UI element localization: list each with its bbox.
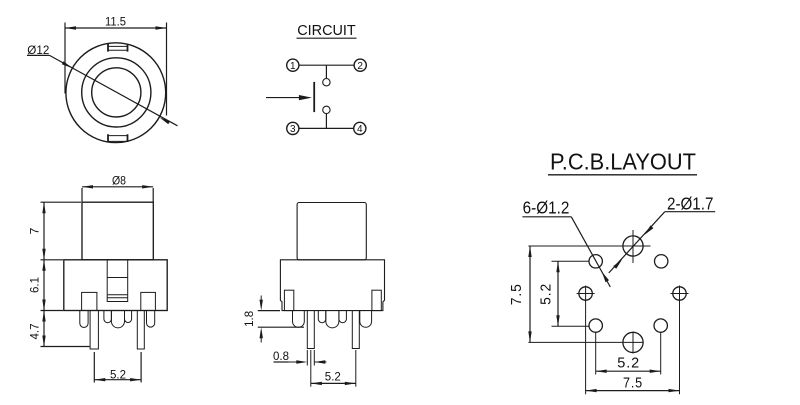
front view: center plunger shaft [107, 260, 128, 302]
label 2-Ø1.7: arrowhead upper right [645, 225, 654, 235]
dimension Ø12: leader line through circle [50, 55, 178, 125]
dimension 11.5: extension lines [64, 23, 66, 94]
front view dimension 5.2: dimension line with arrows [94, 379, 141, 381]
svg-text:5.2: 5.2 [538, 283, 555, 305]
pcb dimension 7.5 left: extension lines through holes [528, 245, 650, 247]
svg-text:7.5: 7.5 [623, 374, 643, 391]
pcb hole: lower-right small hole [654, 319, 667, 332]
front view: mid-left boss [104, 311, 112, 323]
svg-text:3: 3 [290, 124, 296, 135]
front view: mid-right boss [125, 311, 132, 323]
pcb hole: mid-right crosshair horizontal [671, 293, 689, 295]
svg-text:6.1: 6.1 [28, 277, 42, 293]
label 6-Ø1.2: leader line through small hole [571, 217, 610, 287]
dimension 6.1: dimension line segment [43, 260, 45, 311]
svg-text:6-Ø1.2: 6-Ø1.2 [523, 198, 570, 218]
front view: Ø8 extension lines [81, 188, 83, 202]
circuit: terminal 3 circle [287, 122, 299, 134]
dimension 0.8: right arrow [314, 361, 326, 363]
pcb dimension 7.5 left: dimension line with arrows [529, 246, 531, 342]
side view: mid-left boss [318, 311, 326, 323]
circuit: lower contact stub wire [325, 114, 327, 129]
circuit: upper contact circle [323, 79, 330, 86]
circuit: terminal 4 circle [354, 122, 366, 134]
pcb hole: top-left small hole 6-Ø1.2 [589, 255, 602, 268]
svg-text:2-Ø1.7: 2-Ø1.7 [667, 193, 713, 213]
pcb dimension 5.2 bottom: extension lines from lower holes [595, 333, 597, 375]
front view: dimension Ø8 line with arrows [82, 186, 153, 188]
circuit: terminal 1 circle [287, 59, 299, 71]
circuit: title underline [297, 37, 357, 39]
svg-text:4.7: 4.7 [28, 323, 42, 339]
side view: left inner post [284, 290, 293, 310]
pcb dimension 7.5 bottom: extension lines from mid holes [585, 286, 587, 395]
side view: switch body outline [280, 260, 384, 311]
circuit: lower contact circle [323, 106, 330, 113]
svg-text:5.2: 5.2 [617, 354, 640, 371]
pcb dimension 7.5 bottom: dimension line with arrows [586, 390, 680, 392]
front view: center boss [111, 311, 124, 328]
svg-text:P.C.B.LAYOUT: P.C.B.LAYOUT [550, 149, 696, 175]
pcb dimension 5.2 left: dimension line with arrows [557, 261, 559, 326]
front view dimension 5.2: extension lines [93, 352, 95, 383]
dimension Ø12: arrowhead at upper-left circle edge [62, 61, 73, 68]
svg-text:1.8: 1.8 [242, 311, 256, 327]
svg-text:4: 4 [357, 124, 363, 135]
dimension 0.8: left arrow [289, 361, 299, 363]
front view: right terminal pin [137, 311, 144, 350]
svg-text:Ø8: Ø8 [112, 174, 126, 188]
dimension Ø12: arrowhead at lower-right circle edge [160, 117, 171, 124]
top view: top key notch [108, 44, 128, 52]
side view dimension 5.2: extension lines at pin centers [310, 350, 312, 387]
pcb hole: top large hole crosshair vertical [632, 230, 634, 263]
front view: left body slot [82, 292, 97, 310]
pcb hole: top-right small hole [655, 255, 668, 268]
svg-text:2: 2 [357, 61, 363, 72]
svg-text:5.2: 5.2 [325, 369, 341, 383]
pcb hole: mid-left crosshair horizontal [577, 293, 595, 295]
circuit: wire terminal3 to terminal4 [299, 127, 354, 129]
front view: left dimension extension lines [41, 201, 82, 203]
dimension 1.8: extension lines [258, 310, 280, 312]
front view: button cap outline [82, 202, 153, 260]
side view: left terminal pin [307, 311, 314, 349]
circuit: switch actuator bar [313, 82, 315, 112]
pcb hole: lower-left small hole [589, 319, 602, 332]
label 2-Ø1.7: arrowhead lower left [613, 259, 622, 269]
svg-text:7.5: 7.5 [508, 283, 525, 305]
front view: right mounting tab (U shape) [147, 311, 155, 328]
circuit: terminal 2 circle [354, 59, 366, 71]
label 2-Ø1.7: leader line through top hole [609, 212, 665, 273]
dimension 7: dimension line segment [43, 202, 45, 260]
pcb dimension 5.2 bottom: dimension line with arrows [596, 370, 661, 372]
svg-text:CIRCUIT: CIRCUIT [297, 23, 356, 39]
circuit: push direction arrow [266, 97, 301, 99]
front view: left terminal pin [90, 311, 98, 350]
svg-text:1: 1 [290, 61, 296, 72]
pcb hole: bottom large hole crosshair vertical [632, 332, 634, 354]
dimension 11.5: dimension line with arrows [65, 27, 167, 29]
side view dimension 5.2: dimension line with arrows [311, 382, 356, 384]
dimension 1.8: arrows outside [260, 296, 262, 300]
pcb hole: mid-left small hole [579, 287, 592, 300]
pcb hole: bottom large hole 2-Ø1.7 [623, 332, 643, 352]
side view: right mounting tab (U shape) [360, 311, 372, 328]
top view: bottom key notch [108, 134, 128, 142]
side view: mid-right boss [339, 311, 347, 323]
top view: button cap outer circle Ø12 [66, 43, 166, 143]
side view: left mounting tab (U shape) [293, 311, 305, 328]
front view: switch body outline [64, 260, 167, 311]
side view: right inner post [372, 290, 381, 310]
circuit: wire terminal1 to terminal2 [299, 64, 354, 66]
pcb hole: mid-right small hole [673, 287, 686, 300]
side view: button cap outline [297, 203, 366, 260]
svg-text:0.8: 0.8 [273, 349, 289, 363]
svg-text:5.2: 5.2 [110, 367, 126, 381]
svg-text:11.5: 11.5 [105, 17, 126, 29]
front view: left mounting tab (U shape) [80, 311, 88, 328]
svg-text:7: 7 [28, 227, 42, 234]
front view: right body slot [141, 292, 156, 310]
side view: center boss [326, 311, 339, 328]
pcb dimension 5.2 left: extension lines [552, 260, 590, 262]
top view: middle ring circle [82, 58, 151, 127]
pcb layout: title underline [548, 174, 697, 176]
pcb hole: top large hole 2-Ø1.7 [623, 236, 643, 256]
dimension 0.8: pin edge extension lines [306, 350, 308, 366]
dimension 4.7: dimension line segment [43, 311, 45, 347]
circuit: upper contact stub wire [325, 65, 327, 78]
side view: right terminal pin [352, 311, 359, 349]
top view: inner plunger circle [92, 68, 141, 117]
